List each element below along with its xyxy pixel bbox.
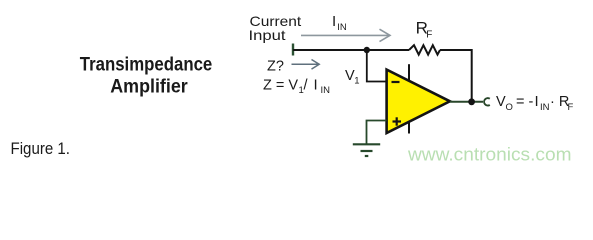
node: current input terminal bbox=[292, 44, 294, 56]
svg-text:Transimpedance: Transimpedance bbox=[80, 54, 213, 76]
negative supply pin bbox=[408, 122, 410, 134]
svg-text:1: 1 bbox=[354, 76, 359, 87]
inverting input marker (-) bbox=[392, 81, 400, 83]
label: Current Input bbox=[249, 13, 302, 43]
label IIN (input current) bbox=[332, 13, 347, 33]
wire: non-inverting input to ground bbox=[367, 121, 387, 144]
label RF bbox=[416, 19, 433, 41]
svg-text:Input: Input bbox=[249, 27, 286, 43]
svg-text:Figure 1.: Figure 1. bbox=[11, 140, 71, 158]
svg-text:Z = V: Z = V bbox=[263, 78, 298, 94]
svg-text:I: I bbox=[535, 93, 539, 110]
label V1 bbox=[345, 68, 359, 87]
svg-text:V: V bbox=[496, 94, 506, 110]
svg-text:IN: IN bbox=[540, 102, 550, 113]
op-amp U1 bbox=[387, 64, 450, 133]
non-inverting input marker (+) bbox=[393, 120, 402, 122]
svg-text:F: F bbox=[426, 29, 432, 40]
svg-text:F: F bbox=[568, 102, 574, 113]
svg-text:www.cntronics.com: www.cntronics.com bbox=[407, 145, 572, 165]
positive supply pin bbox=[408, 64, 410, 80]
wire: node down to inverting input bbox=[367, 50, 387, 82]
svg-text:· R: · R bbox=[550, 94, 569, 110]
svg-text:= -: = - bbox=[516, 94, 533, 110]
svg-text:/: / bbox=[304, 78, 309, 94]
wire: resistor to output node (feedback) bbox=[440, 50, 472, 102]
svg-text:I: I bbox=[332, 13, 336, 30]
label VO = - IIN · RF bbox=[496, 93, 574, 113]
title: Transimpedance Amplifier bbox=[80, 54, 213, 98]
current flow arrow for IIN bbox=[301, 29, 390, 41]
svg-text:IN: IN bbox=[321, 85, 331, 96]
resistor RF bbox=[409, 45, 440, 54]
impedance arrow (Z?) bbox=[292, 60, 320, 70]
output terminal (open circle) bbox=[484, 98, 490, 105]
wire: op-amp output bbox=[450, 101, 483, 103]
svg-text:IN: IN bbox=[337, 22, 347, 33]
junction: inverting input node bbox=[364, 47, 370, 53]
svg-text:Amplifier: Amplifier bbox=[110, 76, 188, 98]
label Z = V1/ IIN bbox=[263, 77, 330, 96]
wire: input terminal to resistor RF bbox=[293, 49, 409, 51]
junction: output node bbox=[468, 98, 475, 105]
ground bbox=[353, 144, 380, 156]
svg-text:O: O bbox=[506, 102, 513, 113]
svg-text:Z?: Z? bbox=[267, 59, 284, 75]
svg-text:I: I bbox=[314, 77, 318, 94]
